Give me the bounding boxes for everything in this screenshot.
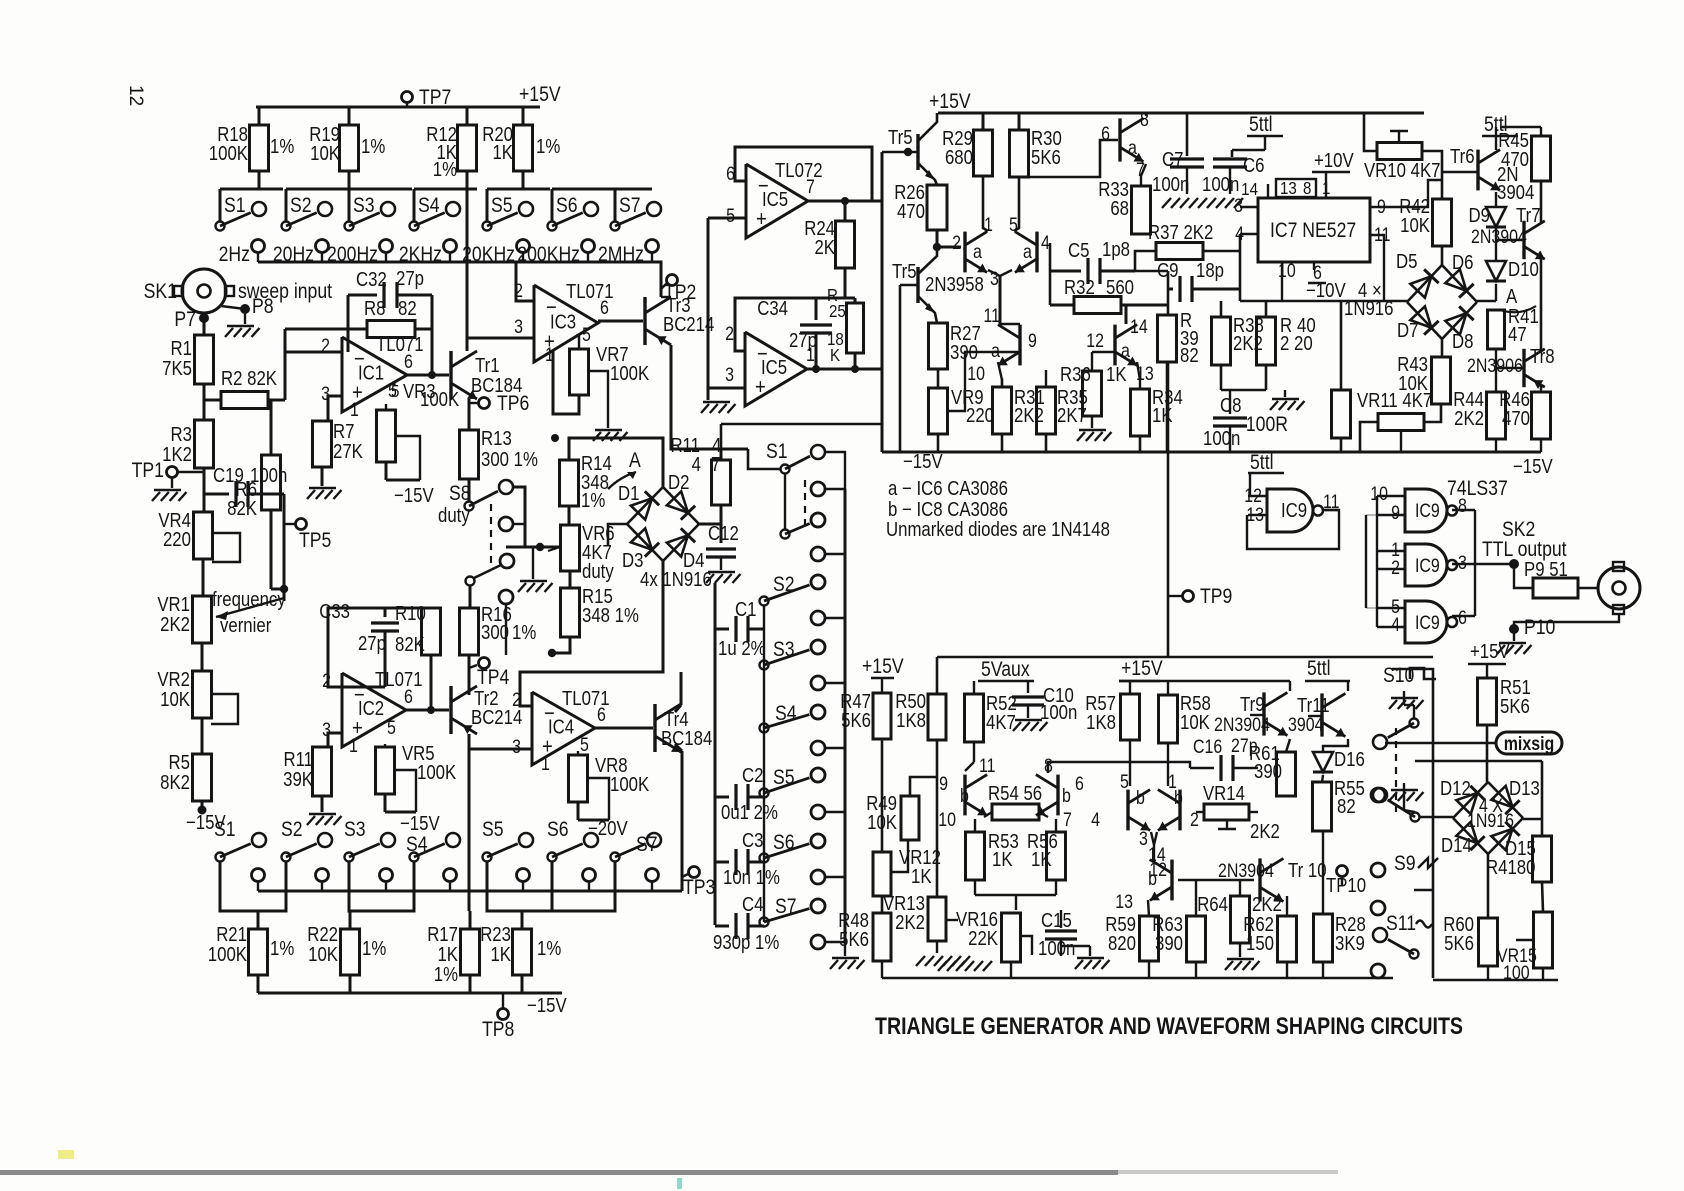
op-amp IC2 TL071 [342, 673, 406, 747]
diode bridge D1 D2 D3 D4 4x1N916 [627, 487, 663, 524]
svg-text:14: 14 [1241, 179, 1258, 200]
wire VR9 bottom [937, 434, 940, 452]
test point TP4 [468, 655, 471, 695]
svg-text:−15V: −15V [394, 484, 434, 507]
svg-text:10K: 10K [308, 943, 338, 966]
svg-text:100n: 100n [1152, 173, 1189, 196]
svg-text:100n: 100n [1040, 701, 1077, 724]
svg-text:8K2: 8K2 [160, 771, 190, 794]
switch S3 (range select) [349, 188, 412, 191]
svg-text:Tr6: Tr6 [1450, 145, 1475, 168]
svg-text:TP3: TP3 [683, 876, 715, 900]
resistor R42 10K [1433, 199, 1452, 246]
svg-text:S1: S1 [766, 440, 788, 464]
svg-text:39K: 39K [283, 768, 313, 791]
op-amp IC3 TL071 [534, 285, 598, 362]
svg-text:10K: 10K [160, 688, 190, 711]
node wafer2 contact5 [1371, 964, 1385, 978]
resistor R12 [466, 107, 469, 125]
test point TP3 [681, 875, 684, 891]
node wafer contact [811, 575, 825, 589]
op-amp IC4 TL071 [532, 692, 595, 765]
wire bottoms to rail [1487, 966, 1489, 980]
resistor R38 2K2 [1212, 317, 1231, 365]
svg-text:1: 1 [350, 399, 359, 421]
wire frequency bus [258, 261, 652, 264]
wire Tr1 collector to IC3 pin3 node [466, 338, 469, 351]
svg-text:IC9: IC9 [1415, 555, 1440, 577]
svg-text:13: 13 [1280, 178, 1297, 199]
svg-text:IC7 NE527: IC7 NE527 [1270, 219, 1356, 243]
svg-text:IC5: IC5 [761, 356, 787, 379]
wire IC5b output [807, 368, 882, 371]
wire +15V b stubs [1119, 680, 1290, 682]
svg-text:1K: 1K [911, 865, 932, 888]
resistor R53 1K [966, 832, 985, 880]
svg-text:R2 82K: R2 82K [221, 367, 278, 390]
resistor R19 [348, 107, 351, 125]
wire C-bank left rail [714, 583, 717, 925]
svg-text:C1: C1 [735, 598, 756, 621]
resistor R57 1K8 [1121, 694, 1140, 740]
svg-text:5: 5 [726, 205, 735, 227]
ground S10 [1403, 691, 1405, 697]
wire Tr10 left emitter to R59 [1148, 900, 1149, 916]
switch S10 lever [1410, 719, 1419, 728]
resistor R6 82K [262, 455, 281, 510]
wire R50 top to boundary [936, 657, 939, 694]
resistor R26 470 [927, 185, 947, 230]
svg-text:D13: D13 [1509, 777, 1540, 800]
ground R36 [1091, 416, 1093, 428]
switch S6 (lower bank) [548, 853, 557, 862]
wire +15V top rail [256, 106, 540, 109]
resistor R40 220 [1257, 317, 1276, 365]
svg-text:R13: R13 [481, 427, 512, 450]
resistor R58 10K [1159, 695, 1178, 743]
svg-text:0u1 2%: 0u1 2% [721, 801, 778, 824]
op-amp IC1 TL071 [342, 337, 407, 412]
svg-text:11: 11 [983, 305, 1000, 327]
svg-text:5: 5 [387, 717, 396, 739]
svg-text:7K5: 7K5 [162, 357, 192, 380]
ground S9 middle [1403, 783, 1405, 789]
resistor R15 348 1% [569, 571, 572, 588]
svg-text:1%: 1% [270, 937, 294, 960]
node P7 [203, 313, 205, 318]
svg-text:820: 820 [1108, 932, 1136, 955]
op-amp IC5b TL072 [745, 332, 807, 406]
svg-text:8: 8 [1140, 109, 1149, 131]
svg-text:10: 10 [1370, 483, 1388, 505]
wire IC5b pin2 loop [735, 298, 855, 351]
svg-text:5ttl: 5ttl [1307, 657, 1331, 681]
node 20Hz [316, 240, 329, 253]
resistor R43 10K [1432, 357, 1451, 404]
node 200KHz [582, 240, 595, 253]
node wafer contact [811, 768, 825, 782]
wire to VR6 wiper [506, 546, 560, 549]
resistor R21 100K [257, 911, 260, 929]
svg-text:D8: D8 [1452, 330, 1473, 353]
scan speck green [677, 1178, 682, 1189]
ground at P8 [244, 309, 246, 324]
svg-text:A: A [629, 449, 641, 473]
svg-text:220: 220 [966, 404, 994, 427]
svg-text:2: 2 [1280, 332, 1289, 355]
wire 5Vaux bar [973, 681, 975, 694]
node contact 2 [499, 517, 513, 531]
node 20KHz [517, 240, 530, 253]
test point TP6 [468, 399, 471, 430]
switch S7 (range select) [615, 188, 652, 191]
svg-text:TL072: TL072 [775, 159, 823, 182]
svg-text:1K: 1K [1106, 363, 1127, 386]
svg-text:7: 7 [806, 176, 815, 198]
svg-text:R32: R32 [1064, 276, 1095, 299]
resistor VR1 2K2 (pot) frequency vernier [193, 596, 212, 643]
wire mixsig feed [1385, 742, 1496, 745]
svg-text:D2: D2 [668, 471, 689, 494]
wire base pin6 [1019, 140, 1118, 177]
wire bridge right leg [1523, 818, 1542, 820]
wire lower bus [258, 890, 682, 893]
svg-text:25: 25 [829, 301, 846, 322]
scan line bottom [0, 1170, 1118, 1175]
svg-text:1K: 1K [992, 848, 1013, 871]
svg-text:+15V: +15V [1121, 657, 1163, 681]
node wafer2 contact4 [1371, 901, 1385, 915]
svg-text:10K: 10K [1180, 711, 1210, 734]
wire pin8 collector up [1145, 113, 1147, 116]
wire R42 bottom to bridge top [1441, 246, 1444, 266]
wire bridge bottom to R60 [1487, 853, 1490, 918]
svg-text:2K2: 2K2 [1250, 820, 1280, 843]
svg-text:1%: 1% [434, 963, 458, 986]
svg-text:Tr 10: Tr 10 [1288, 859, 1327, 882]
svg-text:C12: C12 [708, 522, 739, 545]
resistor R29 680 [982, 113, 985, 130]
dashed wafer2 link [1395, 728, 1397, 812]
wire IC4 pin3 to Tr2 emitter [469, 748, 532, 751]
svg-text:390: 390 [1155, 932, 1183, 955]
svg-text:S6: S6 [547, 818, 569, 842]
resistor R47 5K6 [881, 678, 883, 693]
svg-text:TP6: TP6 [497, 392, 529, 416]
switch S9 lever [1411, 813, 1420, 822]
resistor R35 2K7 [1037, 387, 1056, 434]
svg-text:2K2: 2K2 [895, 911, 925, 934]
svg-text:3904: 3904 [1497, 181, 1534, 204]
svg-text:6: 6 [600, 297, 609, 319]
svg-text:−15V: −15V [903, 450, 943, 473]
svg-text:TL071: TL071 [376, 333, 424, 356]
svg-text:82: 82 [398, 297, 417, 320]
svg-text:duty: duty [582, 560, 614, 583]
ground P10 [1513, 629, 1515, 641]
node wafer contact [811, 834, 825, 848]
svg-text:2K2: 2K2 [1233, 332, 1263, 355]
svg-text:1K: 1K [492, 141, 513, 164]
svg-text:10K: 10K [1398, 372, 1428, 395]
svg-text:a: a [973, 241, 982, 263]
svg-text:82: 82 [1180, 344, 1199, 367]
svg-text:930p 1%: 930p 1% [713, 931, 779, 954]
svg-text:12: 12 [125, 85, 146, 106]
resistor R27 390 [929, 323, 948, 369]
wire b bottom rail [940, 977, 1393, 980]
node wafer2 contact3 [1371, 863, 1385, 877]
transistor a lower-right [1113, 325, 1116, 366]
wire Tr4 emitter down [675, 744, 682, 751]
pot VR3 100K [385, 404, 387, 410]
wire R47 down to VR12 [881, 739, 884, 852]
svg-text:C34: C34 [757, 297, 788, 320]
svg-text:IC9: IC9 [1415, 612, 1440, 634]
svg-text:100n: 100n [1203, 427, 1240, 450]
pot VR9 220 [929, 388, 948, 434]
svg-text:10: 10 [938, 809, 956, 831]
transistor Tr3 BC214 [598, 320, 643, 323]
ground wafer bus [832, 957, 859, 960]
svg-text:C15: C15 [1041, 909, 1072, 932]
svg-text:1%: 1% [270, 135, 294, 158]
switch S4 (range select) [414, 188, 477, 191]
node 200Hz [380, 240, 393, 253]
node wafer bus contact [811, 741, 825, 755]
diode D9 [1495, 192, 1497, 206]
wire bus corner down to Tr3 collector [652, 262, 661, 297]
NAND gate IC9b [1405, 489, 1447, 532]
svg-text:−20V: −20V [588, 817, 628, 840]
switch S1 (range select) [220, 188, 283, 191]
resistor R31 2K2 [993, 387, 1012, 434]
svg-text:100K: 100K [610, 773, 650, 796]
diode D10 [1495, 228, 1497, 261]
wire lower-left emitter to R31 [998, 362, 1002, 387]
wire y300 node row [1240, 300, 1407, 303]
svg-text:C33: C33 [319, 600, 350, 623]
svg-text:R54 56: R54 56 [988, 782, 1042, 805]
svg-text:TP7: TP7 [419, 86, 451, 110]
diode D16 [1323, 739, 1348, 751]
resistor R24 2K [844, 201, 847, 221]
switch S1 (lower bank) [216, 853, 225, 862]
node contact [380, 869, 393, 882]
svg-text:+: + [755, 375, 766, 399]
svg-text:C2: C2 [742, 764, 763, 787]
svg-text:TP5: TP5 [299, 529, 331, 553]
wire +15V right rail [938, 112, 1424, 115]
svg-text:S7: S7 [619, 194, 641, 218]
wire TP9 vertical [1167, 362, 1170, 658]
resistor R60 5K6 [1479, 918, 1498, 966]
NAND gate IC9d [1405, 601, 1447, 643]
svg-text:1: 1 [349, 735, 358, 757]
svg-text:1K8: 1K8 [1086, 711, 1116, 734]
wire IC2 pin2 loop [328, 608, 431, 687]
node contact [646, 869, 659, 882]
bracket wires lower bank [220, 862, 286, 911]
svg-text:10n 1%: 10n 1% [723, 866, 780, 889]
wire box to bridge [1415, 760, 1542, 763]
wire feedback left leg [347, 295, 350, 352]
svg-text:1%: 1% [361, 135, 385, 158]
resistor R55 82 [1313, 782, 1332, 831]
switch S4 (lower bank) [410, 853, 419, 862]
svg-text:−15V: −15V [1513, 455, 1553, 478]
wire R15 bottom [552, 637, 570, 653]
svg-text:TP10: TP10 [1326, 874, 1366, 897]
resistor R17 1K 1% [469, 911, 472, 929]
svg-text:S2: S2 [290, 194, 312, 218]
node P9 [1475, 563, 1514, 565]
wire R39 column [1167, 271, 1170, 315]
svg-text:C5: C5 [1068, 239, 1089, 262]
wire bridge left to IC4 loop [608, 524, 627, 545]
wire lower-left collector [1000, 323, 1020, 325]
wire IC2 pin3 [328, 733, 342, 747]
node contact 3 [500, 554, 514, 568]
node 2KHz [444, 240, 457, 253]
svg-text:9: 9 [939, 773, 948, 795]
svg-text:2: 2 [1391, 557, 1400, 579]
wire Tr2 emitter down [468, 734, 471, 911]
wire IC5a pin5 input [708, 217, 746, 220]
svg-text:7: 7 [1063, 809, 1072, 831]
switch S2 (lower bank) [282, 853, 291, 862]
wire IC9a feedback loop [1247, 510, 1339, 549]
svg-text:10: 10 [1278, 260, 1296, 282]
wire bridge right to R11/C12 [698, 523, 721, 526]
resistor R33 68 [1132, 186, 1151, 234]
svg-text:3: 3 [512, 736, 521, 758]
resistor VR2 10K (pot) [193, 671, 212, 718]
svg-text:1p8: 1p8 [1102, 238, 1130, 261]
svg-text:S2: S2 [281, 818, 303, 842]
wire VR1 to VR2 [201, 643, 204, 671]
svg-text:D6: D6 [1452, 251, 1473, 274]
wire bottom -15V bus [257, 975, 260, 993]
svg-text:+15V: +15V [1470, 640, 1510, 663]
svg-text:2: 2 [512, 689, 521, 711]
wire wafer pivot rail [763, 606, 765, 922]
test point TP10 [1337, 866, 1348, 877]
svg-text:S11: S11 [1386, 912, 1416, 936]
node contact [444, 869, 457, 882]
svg-text:−15V: −15V [400, 812, 440, 835]
resistor R51 5K6 [1478, 678, 1497, 725]
wire R51 to mixsig [1486, 725, 1489, 761]
switch S11 lever [1410, 950, 1419, 959]
wire wafer2 frame [1392, 669, 1433, 978]
svg-text:9: 9 [1028, 330, 1037, 352]
svg-text:D5: D5 [1396, 250, 1417, 273]
switch S6 (range select) [552, 188, 615, 191]
switch S5 (range select) [487, 188, 550, 191]
wire IC1 pin3 [328, 396, 342, 421]
svg-text:5K6: 5K6 [1031, 146, 1061, 169]
node wafer2 contact2 [1371, 788, 1385, 802]
wire IC5b pin3 ground [708, 387, 745, 390]
ground R7 [321, 467, 324, 486]
svg-text:IC5: IC5 [762, 188, 788, 211]
transistor Tr2 BC214 [449, 686, 452, 734]
wire S8 contact bracket [512, 487, 525, 547]
node P8 [221, 306, 245, 309]
svg-text:6: 6 [597, 704, 606, 726]
resistor 100R [1332, 390, 1351, 438]
node wafer bus contact [811, 482, 825, 496]
wire wafer S1 pivot to node [784, 474, 786, 529]
svg-text:10K: 10K [1400, 214, 1430, 237]
svg-text:D10: D10 [1508, 258, 1539, 281]
svg-text:b: b [1148, 868, 1157, 890]
wire R19 to switch S3 bar [348, 171, 351, 189]
svg-text:8: 8 [1044, 755, 1053, 777]
svg-text:2N3904: 2N3904 [1471, 226, 1527, 248]
svg-text:3: 3 [514, 316, 523, 338]
node contact [252, 869, 265, 882]
node contact [517, 869, 530, 882]
resistor R48 5K6 [873, 913, 891, 961]
svg-text:300: 300 [481, 621, 509, 644]
svg-text:+10V: +10V [1314, 149, 1354, 172]
svg-text:2N3904: 2N3904 [1214, 714, 1270, 736]
svg-text:100n: 100n [1202, 173, 1239, 196]
node wafer bus contact [811, 611, 825, 625]
svg-text:100K: 100K [420, 388, 460, 411]
pot VR15 100 [1534, 912, 1553, 968]
svg-text:470: 470 [897, 200, 925, 223]
svg-text:6: 6 [404, 351, 413, 373]
svg-text:VR14: VR14 [1203, 782, 1245, 805]
scan speck yellow [58, 1150, 74, 1159]
wire S10 pivot up [1413, 705, 1415, 718]
transistor Tr(a) top pins 6 8 7 [1118, 118, 1121, 161]
wire feedback right leg [431, 295, 434, 375]
wire R5 to -15V [201, 801, 204, 812]
svg-text:R4180: R4180 [1486, 856, 1535, 879]
resistor R3 [195, 420, 214, 468]
svg-text:82: 82 [1337, 795, 1356, 818]
svg-text:5: 5 [580, 734, 589, 756]
svg-text:a: a [1121, 340, 1130, 362]
resistor R11b 39K [313, 747, 332, 796]
svg-text:12: 12 [1086, 330, 1104, 352]
wire S9 lever pivot link [1414, 889, 1433, 891]
svg-text:3: 3 [1234, 195, 1243, 217]
svg-text:S4: S4 [418, 194, 440, 218]
svg-text:8: 8 [1303, 178, 1311, 199]
svg-text:1K: 1K [1031, 848, 1052, 871]
svg-text:4x 1N916: 4x 1N916 [640, 568, 712, 591]
svg-text:100n: 100n [1038, 937, 1075, 960]
svg-text:S1: S1 [214, 818, 236, 842]
svg-text:Unmarked diodes are 1N4148: Unmarked diodes are 1N4148 [886, 518, 1110, 541]
svg-text:27K: 27K [333, 440, 363, 463]
wire wafer top to bus [825, 452, 845, 489]
svg-text:S1: S1 [224, 194, 246, 218]
svg-text:3K9: 3K9 [1335, 932, 1365, 955]
svg-text:TP4: TP4 [477, 666, 510, 690]
svg-text:IC4: IC4 [548, 715, 574, 738]
wire b pair1 connections [973, 742, 975, 762]
ground C10 [1015, 719, 1042, 722]
svg-text:S5: S5 [491, 194, 513, 218]
wire a lower-right emitter to R34 [1137, 362, 1140, 389]
wire input rail down [707, 218, 710, 400]
